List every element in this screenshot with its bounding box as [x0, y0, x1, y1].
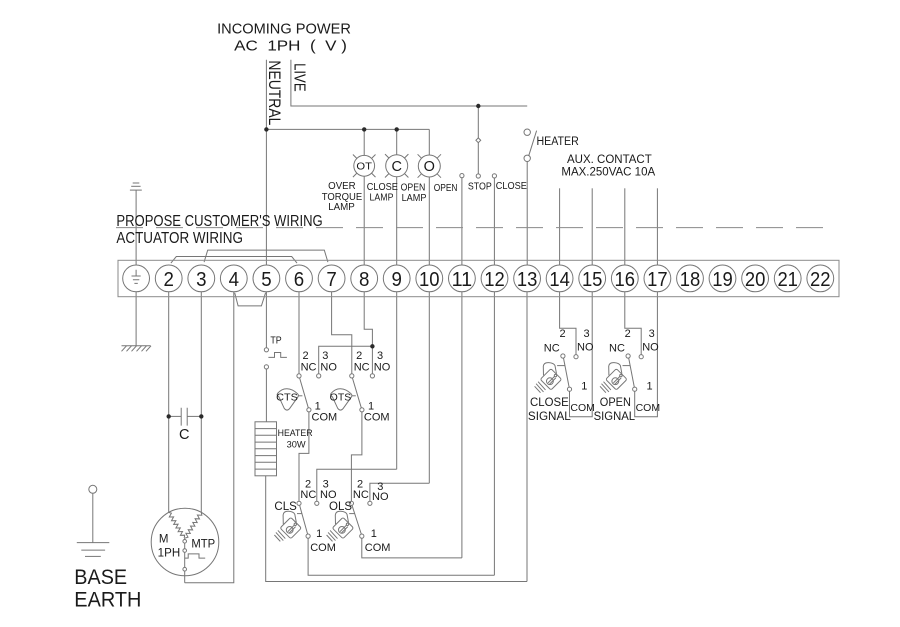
- wire terminal 8 to torque lamp junction: [364, 278, 372, 374]
- wire aux contact to terminal 14: [559, 188, 561, 278]
- svg-text:CLOSE: CLOSE: [496, 180, 527, 192]
- svg-text:1: 1: [316, 528, 322, 540]
- terminal 5 circle: [253, 265, 280, 292]
- svg-text:OPEN: OPEN: [401, 183, 426, 194]
- terminal 17 circle: [644, 265, 671, 292]
- wire terminal 6 to CTS NC: [298, 278, 300, 374]
- earth symbol top-left line1: [133, 182, 140, 184]
- HEATER switch top contact: [524, 129, 530, 135]
- svg-text:COM: COM: [570, 402, 595, 414]
- svg-text:NC: NC: [300, 489, 316, 501]
- svg-text:1: 1: [581, 381, 587, 393]
- terminal 6 circle: [286, 265, 313, 292]
- wire CTS NO to junction: [319, 346, 373, 374]
- terminal 4 circle: [220, 265, 247, 292]
- lamp C circle: [386, 155, 408, 177]
- terminal 16 circle: [611, 265, 638, 292]
- svg-text:3: 3: [196, 269, 206, 291]
- open-signal blade: [629, 358, 635, 387]
- svg-text:NC: NC: [544, 343, 560, 355]
- base earth wire: [92, 493, 94, 542]
- svg-text:CLOSE: CLOSE: [530, 397, 569, 409]
- earth symbol top-left line2: [131, 185, 140, 187]
- wire CLOSE button to terminal 12: [493, 178, 495, 278]
- lamp C rays: [385, 154, 408, 177]
- svg-text:14: 14: [549, 269, 570, 291]
- svg-text:3: 3: [583, 328, 589, 340]
- wire aux contact to terminal 17 upper: [656, 188, 658, 278]
- heater element rungs: [255, 429, 277, 470]
- terminal 14 circle: [546, 265, 573, 292]
- motor node c: [183, 567, 187, 571]
- svg-text:OPEN: OPEN: [434, 182, 458, 194]
- CTS pick symbol: [277, 389, 298, 410]
- CTS blade: [300, 378, 309, 408]
- svg-text:LIVE: LIVE: [290, 63, 307, 92]
- terminal earth circle: [123, 265, 150, 292]
- node torque lamp junction: [370, 344, 374, 348]
- earth symbol top-left line3: [130, 189, 142, 191]
- wire terminal 9 down: [396, 278, 398, 469]
- contact circle close-signal COM: [567, 387, 571, 391]
- svg-text:NO: NO: [374, 362, 391, 374]
- wire C lamp drop: [396, 129, 398, 278]
- svg-text:2: 2: [625, 328, 631, 340]
- contact circle open-signal NO: [639, 355, 643, 359]
- CLS actuator link: [297, 513, 302, 515]
- wire aux contact to terminal 15 upper: [591, 188, 593, 278]
- TP actuator pulse: [268, 353, 287, 358]
- close-signal cam icon: [535, 363, 562, 393]
- svg-text:INCOMING POWER: INCOMING POWER: [217, 21, 351, 37]
- svg-text:2: 2: [302, 350, 308, 362]
- node neutral/lamp branch: [264, 127, 268, 131]
- close-signal blade: [564, 358, 570, 387]
- dashed boundary line customer/actuator: [116, 227, 836, 229]
- lamp OT rays: [353, 155, 376, 178]
- wire O lamp drop: [428, 129, 430, 278]
- svg-text:12: 12: [484, 269, 505, 291]
- HEATER switch bottom contact: [524, 155, 530, 161]
- lamp O circle: [418, 155, 440, 177]
- wire terminal 2 to motor: [168, 278, 170, 512]
- OLS actuator link: [349, 513, 354, 515]
- wire OTS COM down to OLS NC: [351, 412, 362, 501]
- motor node a: [183, 540, 187, 544]
- wire NEUTRAL vertical (to terminal 5): [265, 60, 267, 278]
- contact circle STOP button contact: [476, 174, 480, 178]
- hatched earth strokes: [122, 346, 152, 352]
- contact circle close-signal NC: [561, 354, 565, 358]
- svg-text:15: 15: [582, 269, 603, 291]
- svg-text:CLOSE: CLOSE: [367, 182, 398, 193]
- contact circle OPEN button contact: [460, 174, 464, 178]
- wire terminal 12 down: [493, 278, 495, 575]
- motor center join: [184, 538, 186, 540]
- svg-text:1: 1: [646, 381, 652, 393]
- svg-text:COM: COM: [364, 412, 390, 424]
- svg-text:M: M: [159, 534, 169, 546]
- terminal 12 circle: [481, 265, 508, 292]
- svg-text:11: 11: [452, 269, 473, 291]
- motor winding zigzag left: [169, 512, 185, 538]
- close-signal actuator link: [557, 365, 565, 367]
- base earth line1: [77, 542, 110, 544]
- svg-text:6: 6: [294, 269, 304, 291]
- wire terminal 11 down: [461, 278, 463, 558]
- motor node b: [183, 549, 187, 553]
- svg-text:7: 7: [326, 269, 336, 291]
- lamp OT circle: [354, 155, 375, 176]
- svg-text:NC: NC: [609, 343, 625, 355]
- svg-text:LAMP: LAMP: [402, 193, 427, 204]
- wire lamp neutral branch: [266, 128, 429, 130]
- terminal 22 circle: [807, 265, 834, 292]
- svg-text:OPEN: OPEN: [600, 397, 631, 409]
- node capacitor left: [167, 414, 171, 418]
- svg-text:3: 3: [322, 350, 328, 362]
- wire STOP feed drop: [477, 106, 479, 174]
- wire terminal 13 down: [526, 278, 528, 582]
- svg-text:O: O: [424, 159, 435, 175]
- wire capacitor left: [169, 415, 182, 417]
- wire HEATER switch to terminal 13: [526, 162, 528, 279]
- OTS pick symbol: [331, 389, 352, 410]
- svg-text:TORQUE: TORQUE: [322, 192, 363, 203]
- wire capacitor right: [187, 415, 201, 417]
- contact circle CTS COM: [307, 408, 311, 412]
- svg-text:NO: NO: [320, 362, 337, 374]
- CTS actuator link: [298, 395, 303, 397]
- svg-text:AC 1PH ( V ): AC 1PH ( V ): [234, 38, 347, 54]
- svg-text:PROPOSE CUSTOMER'S WIRING: PROPOSE CUSTOMER'S WIRING: [116, 213, 322, 230]
- OLS cam icon: [327, 511, 354, 541]
- wire terminal 3 to motor: [200, 278, 202, 512]
- OTS blade: [352, 378, 361, 408]
- svg-text:21: 21: [777, 269, 798, 291]
- svg-text:NC: NC: [301, 362, 317, 374]
- STOP feed diamond node: [476, 138, 481, 143]
- OLS blade: [352, 505, 361, 534]
- svg-text:HEATER: HEATER: [278, 428, 313, 439]
- svg-text:BASE: BASE: [74, 566, 127, 589]
- contact circle open-signal NC: [626, 354, 630, 358]
- svg-text:9: 9: [392, 269, 402, 291]
- svg-text:OVER: OVER: [328, 181, 356, 192]
- svg-text:ACTUATOR WIRING: ACTUATOR WIRING: [116, 230, 243, 247]
- contact circle OTS NO: [370, 374, 374, 378]
- wire terminal 17 to open-signal COM: [635, 278, 658, 417]
- svg-text:5: 5: [261, 269, 271, 291]
- wire OT lamp drop: [363, 129, 365, 278]
- svg-text:17: 17: [647, 269, 668, 291]
- wire earth terminal down: [135, 278, 137, 346]
- wire terminal 7 to OTS NC: [332, 278, 352, 374]
- svg-text:MAX.250VAC 10A: MAX.250VAC 10A: [561, 167, 655, 179]
- svg-text:EARTH: EARTH: [74, 589, 141, 612]
- terminal 11 circle: [449, 265, 476, 292]
- svg-text:2: 2: [164, 269, 174, 291]
- svg-text:NO: NO: [320, 489, 337, 501]
- hatched earth line: [122, 345, 151, 347]
- svg-text:TP: TP: [270, 335, 281, 347]
- wire terminal 4 to motor bottom: [185, 278, 234, 583]
- open-signal cam icon: [600, 363, 627, 393]
- svg-text:AUX. CONTACT: AUX. CONTACT: [567, 154, 652, 166]
- wire CTS COM down to CLS NC: [299, 412, 309, 501]
- motor winding zigzag right: [185, 512, 202, 538]
- CLS cam icon: [274, 511, 301, 541]
- wire OLS COM to terminal 11 bottom bus: [362, 538, 462, 558]
- contact circle TP top: [264, 348, 268, 352]
- terminal strip block: [118, 260, 839, 296]
- svg-text:C: C: [179, 427, 189, 443]
- terminal 20 circle: [742, 265, 769, 292]
- svg-text:1: 1: [371, 528, 377, 540]
- node OT lamp: [362, 127, 366, 131]
- contact circle OTS NC: [350, 374, 354, 378]
- base earth line3: [85, 555, 101, 557]
- svg-text:OT: OT: [356, 161, 372, 173]
- svg-text:30W: 30W: [287, 440, 306, 451]
- svg-text:C: C: [391, 159, 401, 175]
- svg-text:1: 1: [315, 401, 321, 413]
- contact circle TP bottom: [264, 365, 268, 369]
- wire terminal 16 to open-signal NO: [625, 278, 641, 355]
- svg-text:10: 10: [419, 269, 440, 291]
- svg-text:OLS: OLS: [329, 501, 352, 513]
- svg-text:2: 2: [356, 350, 362, 362]
- svg-text:2: 2: [559, 328, 565, 340]
- base earth terminal circle: [89, 485, 97, 493]
- motor M1 circle: [151, 508, 219, 576]
- svg-text:8: 8: [359, 269, 369, 291]
- svg-text:MTP: MTP: [191, 539, 215, 551]
- jumper bridge terminal 2 to 6: [171, 257, 297, 264]
- terminal 3 circle: [188, 265, 215, 292]
- wire terminal 10 down: [428, 278, 430, 483]
- svg-text:SIGNAL: SIGNAL: [528, 411, 572, 423]
- terminal 19 circle: [709, 265, 736, 292]
- wire TP to heater element: [265, 369, 267, 422]
- HEATER switch blade: [529, 131, 537, 156]
- wire earth terminal up: [135, 190, 137, 278]
- terminal 15 circle: [579, 265, 606, 292]
- contact circle CTS NC: [297, 374, 301, 378]
- OTS actuator link: [351, 395, 356, 397]
- svg-text:CTS: CTS: [276, 393, 298, 404]
- contact circle CLOSE button contact: [492, 174, 496, 178]
- svg-text:HEATER: HEATER: [537, 136, 579, 148]
- svg-text:CLS: CLS: [274, 501, 297, 513]
- svg-text:LAMP: LAMP: [328, 202, 355, 213]
- wire terminal 14 to close-signal NO: [560, 278, 576, 355]
- svg-text:1: 1: [368, 401, 374, 413]
- svg-text:COM: COM: [310, 542, 336, 554]
- svg-text:STOP: STOP: [468, 181, 492, 193]
- svg-text:NO: NO: [642, 342, 659, 354]
- jumper bridge terminal 3 to 7: [204, 250, 328, 262]
- heater element 30W box: [255, 422, 277, 476]
- motor MTP internal wire: [184, 543, 186, 567]
- contact circle open-signal COM: [633, 387, 637, 391]
- terminal earth symbol: [132, 270, 141, 284]
- contact circle CTS NO: [317, 374, 321, 378]
- svg-text:4: 4: [229, 269, 239, 291]
- capacitor C1 plates: [181, 408, 187, 426]
- motor bottom lead: [184, 571, 186, 583]
- svg-text:NO: NO: [372, 491, 389, 503]
- svg-text:NC: NC: [353, 489, 369, 501]
- contact circle close-signal NO: [574, 355, 578, 359]
- contact circle CLS NC: [297, 501, 301, 505]
- contact circle CLS COM: [306, 534, 310, 538]
- svg-text:COM: COM: [636, 402, 661, 414]
- wire terminal 15 to close-signal COM: [570, 278, 593, 417]
- base earth line2: [81, 549, 105, 551]
- contact circle OLS NC: [349, 501, 353, 505]
- svg-text:3: 3: [649, 328, 655, 340]
- wire LIVE vertical+horizontal: [291, 60, 527, 106]
- CLS blade: [300, 505, 308, 534]
- svg-text:LAMP: LAMP: [370, 193, 394, 204]
- lamp O rays: [418, 154, 441, 177]
- wire heater element to terminal 13 bottom bus: [266, 476, 527, 582]
- svg-text:22: 22: [810, 269, 831, 291]
- wire CLS NO to terminal 9: [317, 469, 397, 501]
- svg-text:1PH: 1PH: [158, 547, 181, 559]
- open-signal actuator link: [623, 365, 631, 367]
- svg-text:3: 3: [377, 350, 383, 362]
- wire terminal 5 to TP: [265, 278, 267, 348]
- node capacitor right: [199, 414, 203, 418]
- svg-text:NC: NC: [354, 362, 370, 374]
- wire OLS NO to terminal 10: [370, 483, 429, 501]
- svg-text:20: 20: [745, 269, 766, 291]
- wire aux contact to terminal 16: [624, 188, 626, 278]
- terminal 13 circle: [514, 265, 541, 292]
- svg-text:18: 18: [680, 269, 701, 291]
- svg-text:NO: NO: [577, 342, 594, 354]
- contact circle CLS NO: [315, 501, 319, 505]
- contact circle OLS NO: [368, 501, 372, 505]
- terminal 8 circle: [351, 265, 378, 292]
- wire CLS COM to terminal 12 bottom bus: [308, 538, 494, 575]
- jumper bridge terminal 4 to 5 (below strip): [235, 293, 266, 306]
- wire OPEN button to terminal 11: [461, 178, 463, 278]
- svg-text:COM: COM: [312, 412, 338, 424]
- terminal 21 circle: [774, 265, 801, 292]
- svg-text:COM: COM: [365, 542, 391, 554]
- svg-text:13: 13: [517, 269, 538, 291]
- node LIVE/STOP junction: [476, 104, 480, 108]
- svg-text:19: 19: [712, 269, 733, 291]
- terminal 2 circle: [155, 265, 182, 292]
- contact circle OLS COM: [360, 534, 364, 538]
- svg-text:SIGNAL: SIGNAL: [594, 411, 636, 423]
- svg-text:NEUTRAL: NEUTRAL: [265, 60, 284, 125]
- terminal 9 circle: [383, 265, 410, 292]
- svg-text:16: 16: [615, 269, 636, 291]
- terminal 10 circle: [416, 265, 443, 292]
- svg-text:OTS: OTS: [330, 393, 352, 404]
- contact circle OTS COM: [360, 408, 364, 412]
- node C lamp: [395, 127, 399, 131]
- terminal 18 circle: [677, 265, 704, 292]
- motor MTP pulse symbol: [185, 554, 206, 558]
- terminal 7 circle: [318, 265, 345, 292]
